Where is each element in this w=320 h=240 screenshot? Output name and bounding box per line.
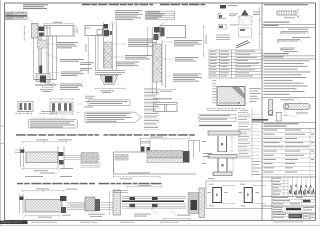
left jamb profile detail 4 [15,147,24,167]
frame profile head [39,27,45,37]
small dim right detail 5 [203,153,212,157]
file stamp black bar bottom-left [0,221,28,224]
small rows left of spec table [253,161,261,175]
heading detail 3 [160,4,170,6]
note box 1 [88,100,130,106]
pos jamb left [208,184,236,207]
glazing bar drawing [277,10,300,19]
small labels right of plan sections [84,96,95,108]
drawing title bold [286,208,301,211]
panel header text [264,4,308,5]
spec table rows [262,129,316,177]
door frame above detail 5 [141,140,151,153]
general notes list top-left [23,4,48,9]
lintel box detail 3 [160,26,186,38]
glass edge dark bar [39,66,42,76]
annotation right of detail 2 upper [128,39,157,47]
heading detail 2 [82,4,91,6]
right jamb detail 6 [60,196,67,201]
lintel box detail 2 [85,26,103,36]
small dimension below detail 3 [158,88,175,90]
frame profile marks detail 2 [104,24,109,29]
bottom dimension detail 4 [23,167,59,170]
leader labels right of detail 1 [57,42,84,90]
axis scale below diagram [206,108,246,110]
T-profile 1 (frame head section) [202,131,240,152]
top dimension detail 6 [23,189,65,192]
note box 0 (left wide note) [28,120,77,128]
drawing number dark cell [289,214,303,218]
small legend table (2 rows) [199,115,236,122]
lock cylinder detail [268,98,310,117]
annotation block above detail 2 [115,10,143,20]
door rails detail 7 [122,196,186,208]
pos jamb right [239,184,267,207]
screw icon 2 [218,25,239,30]
top dimension detail 7 [127,186,162,189]
panel divider line [261,3,263,220]
lintel / sill box [44,26,73,37]
wall band right detail 5 [147,151,183,159]
bottom small dimension [42,86,53,88]
left dim detail 7 [108,192,110,214]
annotations right of detail 3 [173,40,202,82]
heading detail 4 (long) [16,134,26,136]
revision rows [272,177,288,196]
left dimension detail 3 [147,28,149,55]
spec table header [262,122,316,124]
wall face lines detail 2 [96,23,117,71]
fold mark left edge [1,126,5,144]
signature scribbles [289,185,314,196]
angle icon [236,41,250,49]
wall insulation column detail 2 [104,42,112,68]
vertical dimension detail 2 [87,38,89,73]
wall insulation block [32,24,39,39]
wall insulation column detail 3 [153,44,162,82]
dimension chains under plan sections [16,112,80,115]
title block rows [272,199,316,202]
section symbol [220,5,226,9]
footer text under frame [31,222,303,223]
profile sketch 2 [278,37,310,43]
small plan section A (frame pair) [18,102,33,112]
room outline detail 5 [114,152,197,174]
legend paragraph [264,60,311,95]
dimension below sill detail 2 [95,88,125,91]
right dimension line detail 3 [203,26,205,56]
wall face lines detail 3 [152,27,165,95]
dimension above lintel [44,23,73,25]
wall continuation detail 4 [64,155,100,160]
profile sketch 1 [281,29,308,35]
door leaf crosshatch band detail 6 [25,200,62,213]
top dimension detail 5 [140,137,190,140]
legend table top-left [6,12,28,20]
small table above detail 3 [145,11,174,20]
diagram side note [250,88,261,102]
annotation right of detail 2 lower [125,55,152,60]
sill assembly detail 2 [95,70,125,84]
scale cell [303,214,310,219]
profile sketch 3 [281,48,298,52]
dimension ticks right of lintel [74,26,77,37]
project title rows [273,207,314,212]
plate icon [239,28,252,37]
signature columns [288,177,311,196]
top dimension detail 4 [23,140,67,143]
right jamb detail 5 [183,151,190,163]
column dimension line [258,8,260,48]
header rule 1 [262,23,316,25]
header rule 2 [264,53,289,54]
right assembly detail 7 [188,193,199,214]
profile column header [199,125,232,126]
leader from table to detail 1 [27,17,33,23]
left jamb detail 6 [20,194,24,213]
right jamb detail 4 [58,146,64,168]
labels right of sill detail 2 [116,62,139,67]
leaders from annotation to profile [108,21,117,28]
bottom leaders and dims detail 7 [164,217,190,220]
T-profile box detail [153,98,172,99]
bar icon [216,35,230,39]
sill assembly bottom [34,74,57,86]
small mullion section above spec table [275,113,287,122]
heading detail 5 (long) [17,183,23,185]
bottom dimension detail 5 [114,175,161,178]
frame profile marks detail 3 [154,27,160,33]
approval dark cell [303,200,311,202]
logo text left of spec table [252,119,268,121]
door leaf hatched band detail 4 [26,152,58,163]
leader lines detail 1 [44,44,60,85]
rollers detail 7 [130,197,136,200]
wall continuation detail 6 [67,203,114,210]
insulation block inside room [115,154,129,161]
screw icon 1 [218,14,238,19]
bottom dimension detail 6 [25,214,60,217]
T-profile 2 (frame sill section) [202,155,237,179]
bottom row of title block [273,214,315,218]
anchor icon [239,10,260,26]
dark row in legend table [6,15,27,16]
left dimension line [23,26,26,40]
axis labels left of diagram [212,80,216,103]
note box 2 with arrow banner [85,112,142,122]
dashed line left detail 6 [22,213,24,219]
labels left of sill detail 2 [80,62,94,70]
divider line left of spec panel [251,108,253,177]
frame insulation below [38,40,48,48]
left wall column detail 7 [113,190,121,215]
glazing lines going down [34,36,57,80]
small plan section B (frame triple with dims) [50,98,73,115]
